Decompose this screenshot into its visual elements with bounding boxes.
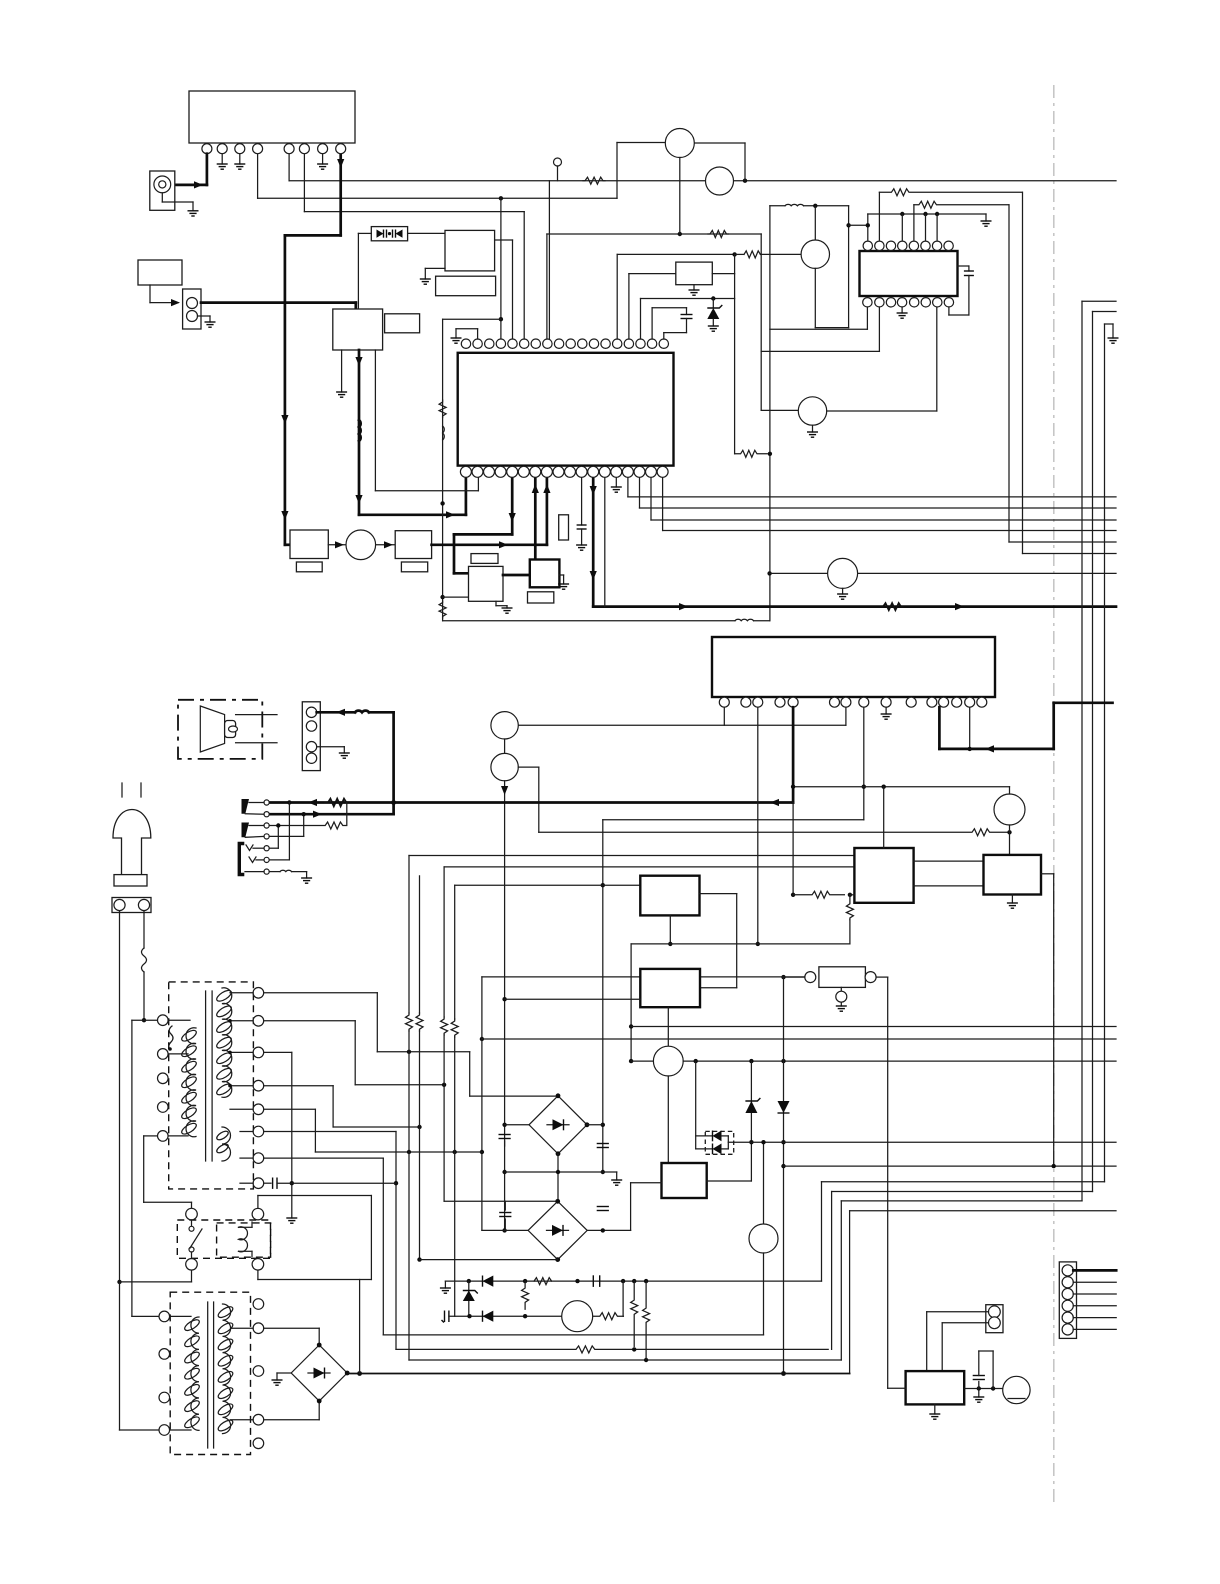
pin14b ground: [615, 477, 617, 487]
y977 line: [482, 976, 640, 978]
speaker dashed box: [178, 700, 262, 759]
ground speaker return: [343, 747, 345, 753]
wire oscillator circle bottom link: [815, 327, 848, 329]
pin6t stem: [523, 212, 525, 339]
primary feed lines: [132, 1019, 158, 1021]
box6: [640, 969, 700, 1007]
vertical Rs at 634/646: [631, 1281, 638, 1346]
wire box J to IC1 pin5 top: [512, 240, 514, 339]
node dot at 745: [743, 179, 747, 183]
connector CN4: [302, 702, 320, 771]
circle668: [667, 1007, 669, 1046]
ground box4 output: [978, 1389, 980, 1398]
switch RY1 contact: [191, 1220, 193, 1226]
S2: [264, 1020, 356, 1022]
IC2 pin2b line y351.4 and jog: [761, 350, 879, 352]
diode D-chain cathode bar: [778, 1112, 790, 1114]
IC2 R2 line y204.8: [913, 205, 915, 240]
wire y943.9 rail: [631, 943, 850, 945]
box4: [906, 1371, 965, 1404]
bold speaker line y802.5: [792, 707, 795, 802]
box5: [640, 876, 699, 916]
wire pin6 line y211.6: [303, 154, 305, 212]
S7 line across: [383, 1334, 763, 1336]
wire IC1 pin18 to bus B4: [662, 477, 664, 531]
plug left wire down: [119, 911, 121, 1282]
right top margin verticals: [1082, 300, 1116, 302]
relay coil: [239, 1227, 248, 1252]
node open circle: [554, 158, 562, 166]
wire pin8 bold down-left: [339, 154, 342, 236]
connector CN3 6pin: [1059, 1262, 1076, 1339]
pin8t pair verticals: [546, 234, 548, 339]
box9: [984, 855, 1042, 895]
transistor component: [819, 967, 866, 988]
tuner second lead: [374, 350, 376, 491]
diode bar bridge DB2: [563, 1119, 565, 1130]
box8 to box9 double line: [914, 860, 984, 862]
S5: [264, 1108, 316, 1110]
wire bold riser to IC1 pin1: [465, 477, 468, 515]
secondary coil T1: [222, 988, 232, 1098]
circle V2 on line: [706, 167, 734, 195]
line B: [444, 1311, 446, 1323]
p5 to relay: [144, 1135, 158, 1137]
connector CN5 pin2: [138, 899, 149, 910]
box7: [662, 1163, 707, 1198]
wire bold line arrow: [955, 603, 964, 610]
pins of top box: [202, 144, 346, 154]
ground right margin stub: [1112, 324, 1114, 338]
zener pair: [750, 1061, 752, 1181]
bus B5 B6: [1009, 541, 1116, 543]
IC2 R1 line y192.3: [878, 192, 880, 240]
node line A junctions: [621, 1279, 625, 1283]
pin2 stem to y943.9: [757, 707, 759, 944]
node bridge DB1 corners: [317, 1399, 322, 1404]
S4: [264, 1085, 333, 1087]
primary coil T1: [186, 1028, 196, 1137]
verticals 409/419.5/444/454.7 with resistors: [408, 856, 410, 1014]
pin12b bold long line y606.6: [592, 477, 595, 607]
crystal rect: [559, 515, 569, 540]
wire IC1 pin18 top riser: [663, 333, 665, 339]
box K: [676, 262, 713, 285]
jack sleeve bracket: [239, 844, 244, 875]
nested B lines: [822, 1181, 1105, 1183]
pin14 stem: [969, 707, 971, 749]
label box L1: [138, 260, 182, 285]
node junction on phones line: [287, 800, 291, 804]
circle line y411 to IC2 pin7: [761, 409, 798, 411]
wire pin4 line y198.3: [257, 154, 259, 199]
phones bold line y814.2: [267, 813, 394, 816]
node T1 secondary taps: [228, 1051, 232, 1055]
wire T1 secondary stubs: [230, 992, 253, 994]
capacitor C-lineA plate2: [599, 1275, 601, 1287]
resistor R-top on y180.7: [583, 177, 605, 184]
wire circle to box F with arrow: [376, 544, 396, 546]
node box4 output junctions: [991, 1386, 995, 1390]
ground jack sleeve: [306, 872, 308, 878]
x481.9 vertical: [481, 977, 483, 1231]
wire CN3 pins 4-6 leads: [1073, 1305, 1116, 1307]
bus B1-B4 from pins 15-18: [627, 477, 629, 497]
caps beside lower bridge: [499, 1212, 511, 1214]
top box U10: [189, 91, 355, 143]
x763.5 vertical and lamp circle: [763, 1142, 765, 1224]
fuse squiggle inside: [169, 1026, 173, 1049]
box H: [503, 574, 530, 577]
pin1 gray line y786.7: [793, 786, 1009, 788]
phone jack circles: [264, 800, 269, 874]
circle O1 at 815: [814, 206, 816, 240]
S8 cap: [264, 1182, 271, 1184]
IC3 box: [712, 637, 995, 697]
fold line: [1053, 85, 1055, 1502]
wires of diode block: [358, 232, 371, 234]
1349 line with R: [396, 1346, 828, 1353]
bold wire CN4 to amp: [317, 711, 355, 714]
bold bridge output 1373.5: [347, 1373, 849, 1375]
relay wires: [191, 1270, 193, 1282]
S7: [264, 1157, 384, 1159]
S6: [264, 1131, 396, 1133]
wire pin8b bold from box F line: [546, 477, 549, 545]
wire pin5 long line y180.7: [288, 154, 290, 181]
IC1 top-left ground hook: [477, 329, 479, 339]
S1: [264, 992, 378, 994]
wire IC1 pin16 top riser: [640, 299, 642, 340]
IC2 y214 line: [868, 213, 986, 215]
S3 to ground: [264, 1051, 292, 1053]
IC1 right nested lines pins14-18 top: [616, 254, 618, 339]
wire stub to box G left: [443, 596, 469, 598]
IC2 box: [860, 251, 958, 296]
diode bar bridge DB3: [562, 1225, 564, 1236]
zener and R between A and B: [468, 1281, 470, 1316]
wire gray feed line y1210.8: [850, 1210, 1116, 1212]
RCA jack bold lead: [206, 154, 209, 185]
stacked circles: [491, 712, 518, 739]
caps beside upper bridge: [499, 1134, 511, 1136]
box G: [469, 566, 504, 601]
node junction x419.5 bridge feed: [417, 1257, 421, 1261]
diode D-lineB: [483, 1311, 494, 1322]
pin13b stem: [604, 477, 606, 607]
IC2 pin stems bottom: [866, 307, 868, 329]
bus B7 with circle: [767, 571, 771, 575]
wire pin7b bold from box H: [534, 477, 537, 560]
B1166: [784, 1165, 1117, 1167]
wire T1 primary stubs: [168, 1019, 190, 1021]
circle V1: [665, 129, 694, 158]
wire IC2 pin8 hook: [948, 307, 950, 315]
R line y451.8: [735, 450, 768, 457]
ground transistor emitter: [836, 1006, 847, 1011]
1172 ground line: [505, 1171, 617, 1173]
circle above box9: [994, 794, 1025, 825]
tuner box U11: [333, 309, 383, 350]
wire IC2 top pin stems: [901, 214, 903, 240]
diode D2 in dashed block: [713, 1144, 722, 1155]
wire x442.6 long vertical with R and L: [442, 319, 444, 621]
pin5 continues thin to R line: [792, 803, 794, 895]
wire circle V1 right to 745: [694, 142, 745, 144]
wire CN2 pin2 lead: [941, 1323, 943, 1371]
bold wire CN1 to tuner box: [201, 301, 356, 304]
y234 line: [547, 233, 761, 235]
IC1 top pins: [461, 339, 668, 348]
jack tips: [242, 799, 250, 814]
node bus 1061 junctions: [749, 1059, 753, 1063]
ground RCA shield: [161, 193, 163, 202]
w3 line into box5: [455, 884, 641, 886]
wire T2 secondary stubs: [231, 1419, 254, 1421]
jack wires: [269, 822, 346, 829]
gray coil line y620.7: [443, 620, 735, 622]
plug: [121, 783, 123, 797]
dashed diode block: [705, 1131, 733, 1154]
node junctions x602.8: [601, 1170, 605, 1174]
coil line y205.8: [770, 205, 785, 207]
x848.6 down: [848, 206, 850, 328]
grounds under pins 2,3,7: [221, 154, 223, 164]
ground bridge DB1 negative: [272, 1380, 283, 1385]
IC1 bottom pins: [460, 466, 668, 477]
R network right of box5: [793, 891, 844, 898]
connector CN1: [183, 289, 201, 329]
bold out of tuner: [358, 350, 361, 515]
connector CN2: [986, 1305, 1003, 1333]
wire pin5b bold path to box G: [511, 477, 514, 534]
pin11b cap to ground: [581, 477, 583, 525]
RCA jack J1: [150, 171, 175, 210]
c2 stem down long: [504, 781, 506, 1231]
wire to circle V1: [616, 143, 618, 199]
plug right wire with fuse squiggle: [143, 911, 145, 948]
line y725.3 to stacked circles: [723, 707, 725, 725]
wire x501 pin4t vertical: [500, 198, 502, 339]
primary terminals: [158, 1015, 169, 1141]
lamp: [1003, 1376, 1030, 1403]
pin8 line y819.8: [863, 707, 865, 820]
IC2 right cap: [958, 265, 969, 267]
box8 IC4: [409, 855, 854, 857]
box J (IF): [445, 230, 495, 271]
wire relay output rail: [258, 1279, 372, 1281]
c2 right to y832.3 line: [518, 766, 539, 768]
secondary terminals: [253, 988, 264, 1189]
box E chain: [285, 543, 290, 546]
wire jack contact 6 riser: [288, 803, 290, 860]
diode block output bus: [728, 1141, 1116, 1143]
1360 line: [409, 1359, 841, 1361]
IC1 box: [458, 353, 674, 466]
bold margin feed at y702.8/748.9: [1054, 701, 1113, 704]
diode block D10: [371, 227, 407, 241]
pin9 ground: [885, 707, 887, 714]
